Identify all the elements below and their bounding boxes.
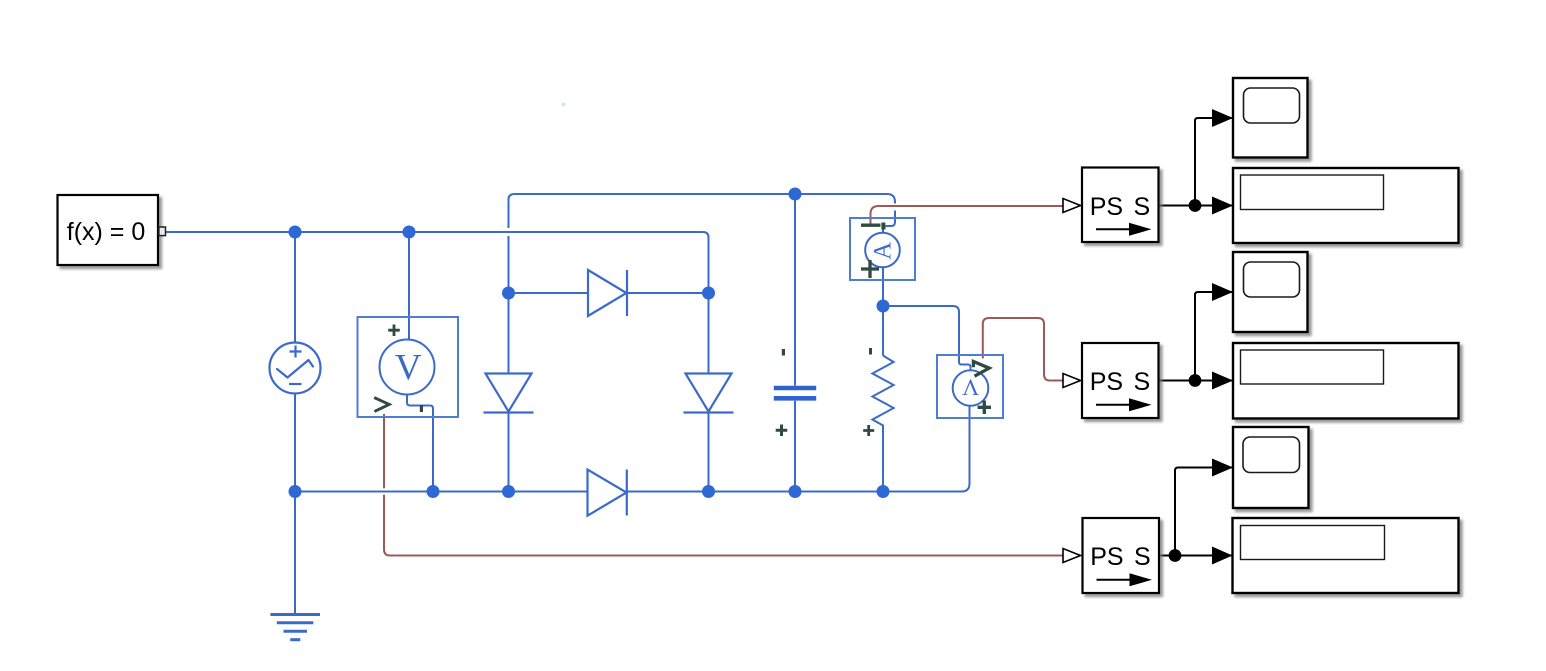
scope block 2 xyxy=(1233,252,1308,332)
diode D1 (top of bridge) xyxy=(588,270,627,316)
junction dots (blue) xyxy=(289,188,890,499)
wire: voltage sensor top branch xyxy=(408,232,410,340)
wire: ammeter bottom to resistor node xyxy=(882,268,884,307)
node: bottom bus / voltmeter U1 return xyxy=(427,485,440,498)
node: solver bus / AC source xyxy=(289,226,302,239)
wire: solver output to node bus (horizontal y=232) xyxy=(166,232,709,293)
wire: top diode row cathode lead xyxy=(627,292,709,294)
voltmeter U2 (rotated V sensor) xyxy=(937,355,1003,418)
wire: diode D4 cathode to bottom bus xyxy=(708,413,710,492)
node: ammeter / resistor / voltmeter U2 xyxy=(877,300,890,313)
wire: physical signal from voltmeter U1 V port to PS-S converter 3 xyxy=(384,414,1063,556)
port: PS input triangle of converter 1 xyxy=(1063,199,1081,213)
scope block 3 xyxy=(1233,427,1309,508)
label: + pin of C1 xyxy=(776,425,788,437)
wire: ground stem xyxy=(294,492,296,615)
node: bridge top right xyxy=(702,287,715,300)
PS-Simulink converter 3 xyxy=(1083,518,1160,593)
arrowheads into blocks xyxy=(1212,109,1233,565)
label: + pin of R1 xyxy=(863,425,874,436)
PS-Simulink converter 1 xyxy=(1082,168,1159,243)
wire: physical signal from voltmeter U2 V port to PS-S converter 2 xyxy=(983,318,1063,381)
svg-text:V: V xyxy=(962,373,979,399)
wire: diode D3 cathode to bottom bus xyxy=(508,413,510,492)
wire: bottom bus left segment xyxy=(295,491,587,493)
display block 1 xyxy=(1233,168,1459,243)
node: bottom bus / AC-ground xyxy=(289,485,302,498)
wire: bridge left vertical upper segment xyxy=(509,194,515,228)
node: solver bus / voltmeter U1 xyxy=(403,226,416,239)
capacitor C1 xyxy=(774,388,816,398)
label: PS output port of U1 xyxy=(374,398,389,412)
label: + pin of U1 xyxy=(388,325,400,337)
port: PS input triangle of converter 3 xyxy=(1063,549,1081,563)
wire: bridge right vertical to diode D4 xyxy=(708,293,710,374)
port: solver output nub xyxy=(159,227,166,236)
diode D4 (right leg, pointing down) xyxy=(684,374,734,413)
node: top bus / capacitor xyxy=(789,188,802,201)
node: bottom bus / bridge right xyxy=(702,485,715,498)
label: PS output port of U2 xyxy=(973,362,989,377)
wire: capacitor bottom lead xyxy=(794,401,796,492)
label: - pin of U1 xyxy=(420,405,423,412)
wire: top bus from bridge to capacitor and ammeter (y=194) xyxy=(515,194,896,234)
wire: resistor bottom lead xyxy=(882,429,884,492)
wire: AC source bottom to bottom bus xyxy=(294,394,296,492)
wire: AC source top branch xyxy=(294,232,296,343)
ground G1 xyxy=(270,615,320,640)
svg-text:f(x) = 0: f(x) = 0 xyxy=(67,218,146,246)
node: bottom bus / resistor xyxy=(877,485,890,498)
solver configuration block f(x) = 0 xyxy=(58,195,159,265)
wire: node to voltmeter U2 top xyxy=(883,306,971,371)
signal wire: PS-S 3 to scope3/display3 xyxy=(1159,468,1233,556)
wire: bridge left vertical to diode D3 xyxy=(508,293,510,374)
label: - pin of I1 xyxy=(881,223,885,230)
svg-text:PS S: PS S xyxy=(1090,193,1150,221)
diode D3 (left leg, pointing down) xyxy=(484,374,534,413)
wire: capacitor top lead xyxy=(794,194,796,386)
port: PS input triangle of converter 2 xyxy=(1063,374,1081,388)
label: - pin of R1 xyxy=(869,348,872,355)
scope block 1 xyxy=(1233,78,1308,158)
node: bridge top left xyxy=(502,287,515,300)
signal junction dots (black) xyxy=(1169,199,1202,562)
label: + pin of U2 xyxy=(978,401,991,415)
resistor R1 xyxy=(872,356,893,429)
node: bottom bus / capacitor xyxy=(789,485,802,498)
signal wire: PS-S 2 to scope2/display2 xyxy=(1159,292,1234,381)
display block 2 xyxy=(1233,343,1459,419)
PS-Simulink converter 2 xyxy=(1082,343,1159,418)
annotation dot xyxy=(562,103,565,106)
AC voltage source V1 xyxy=(270,343,321,394)
wire: physical signal from ammeter I port to PS-S converter 1 xyxy=(871,206,1064,224)
wire: bottom bus mid segment xyxy=(627,406,970,492)
svg-text:PS S: PS S xyxy=(1090,368,1150,396)
node: bottom bus / bridge left xyxy=(502,485,515,498)
display block 3 xyxy=(1233,518,1459,593)
svg-text:PS S: PS S xyxy=(1090,543,1150,571)
diode D2 (bottom of bridge) xyxy=(588,470,627,516)
wire: bridge left vertical below crossing xyxy=(508,236,510,293)
svg-text:A: A xyxy=(870,242,897,260)
wire: top diode row anode lead xyxy=(509,292,589,294)
label: - pin of C1 xyxy=(782,349,785,356)
voltage sensor U1 (V) xyxy=(358,317,459,417)
label: + pin of I1 xyxy=(861,260,879,278)
svg-text:V: V xyxy=(395,348,422,389)
wire: resistor top lead xyxy=(882,306,884,356)
current sensor I1 (A) xyxy=(850,218,915,280)
signal wire: PS-S 1 to scope1/display1 xyxy=(1159,118,1234,206)
wire: voltage sensor negative lead to bottom bus xyxy=(407,395,433,492)
